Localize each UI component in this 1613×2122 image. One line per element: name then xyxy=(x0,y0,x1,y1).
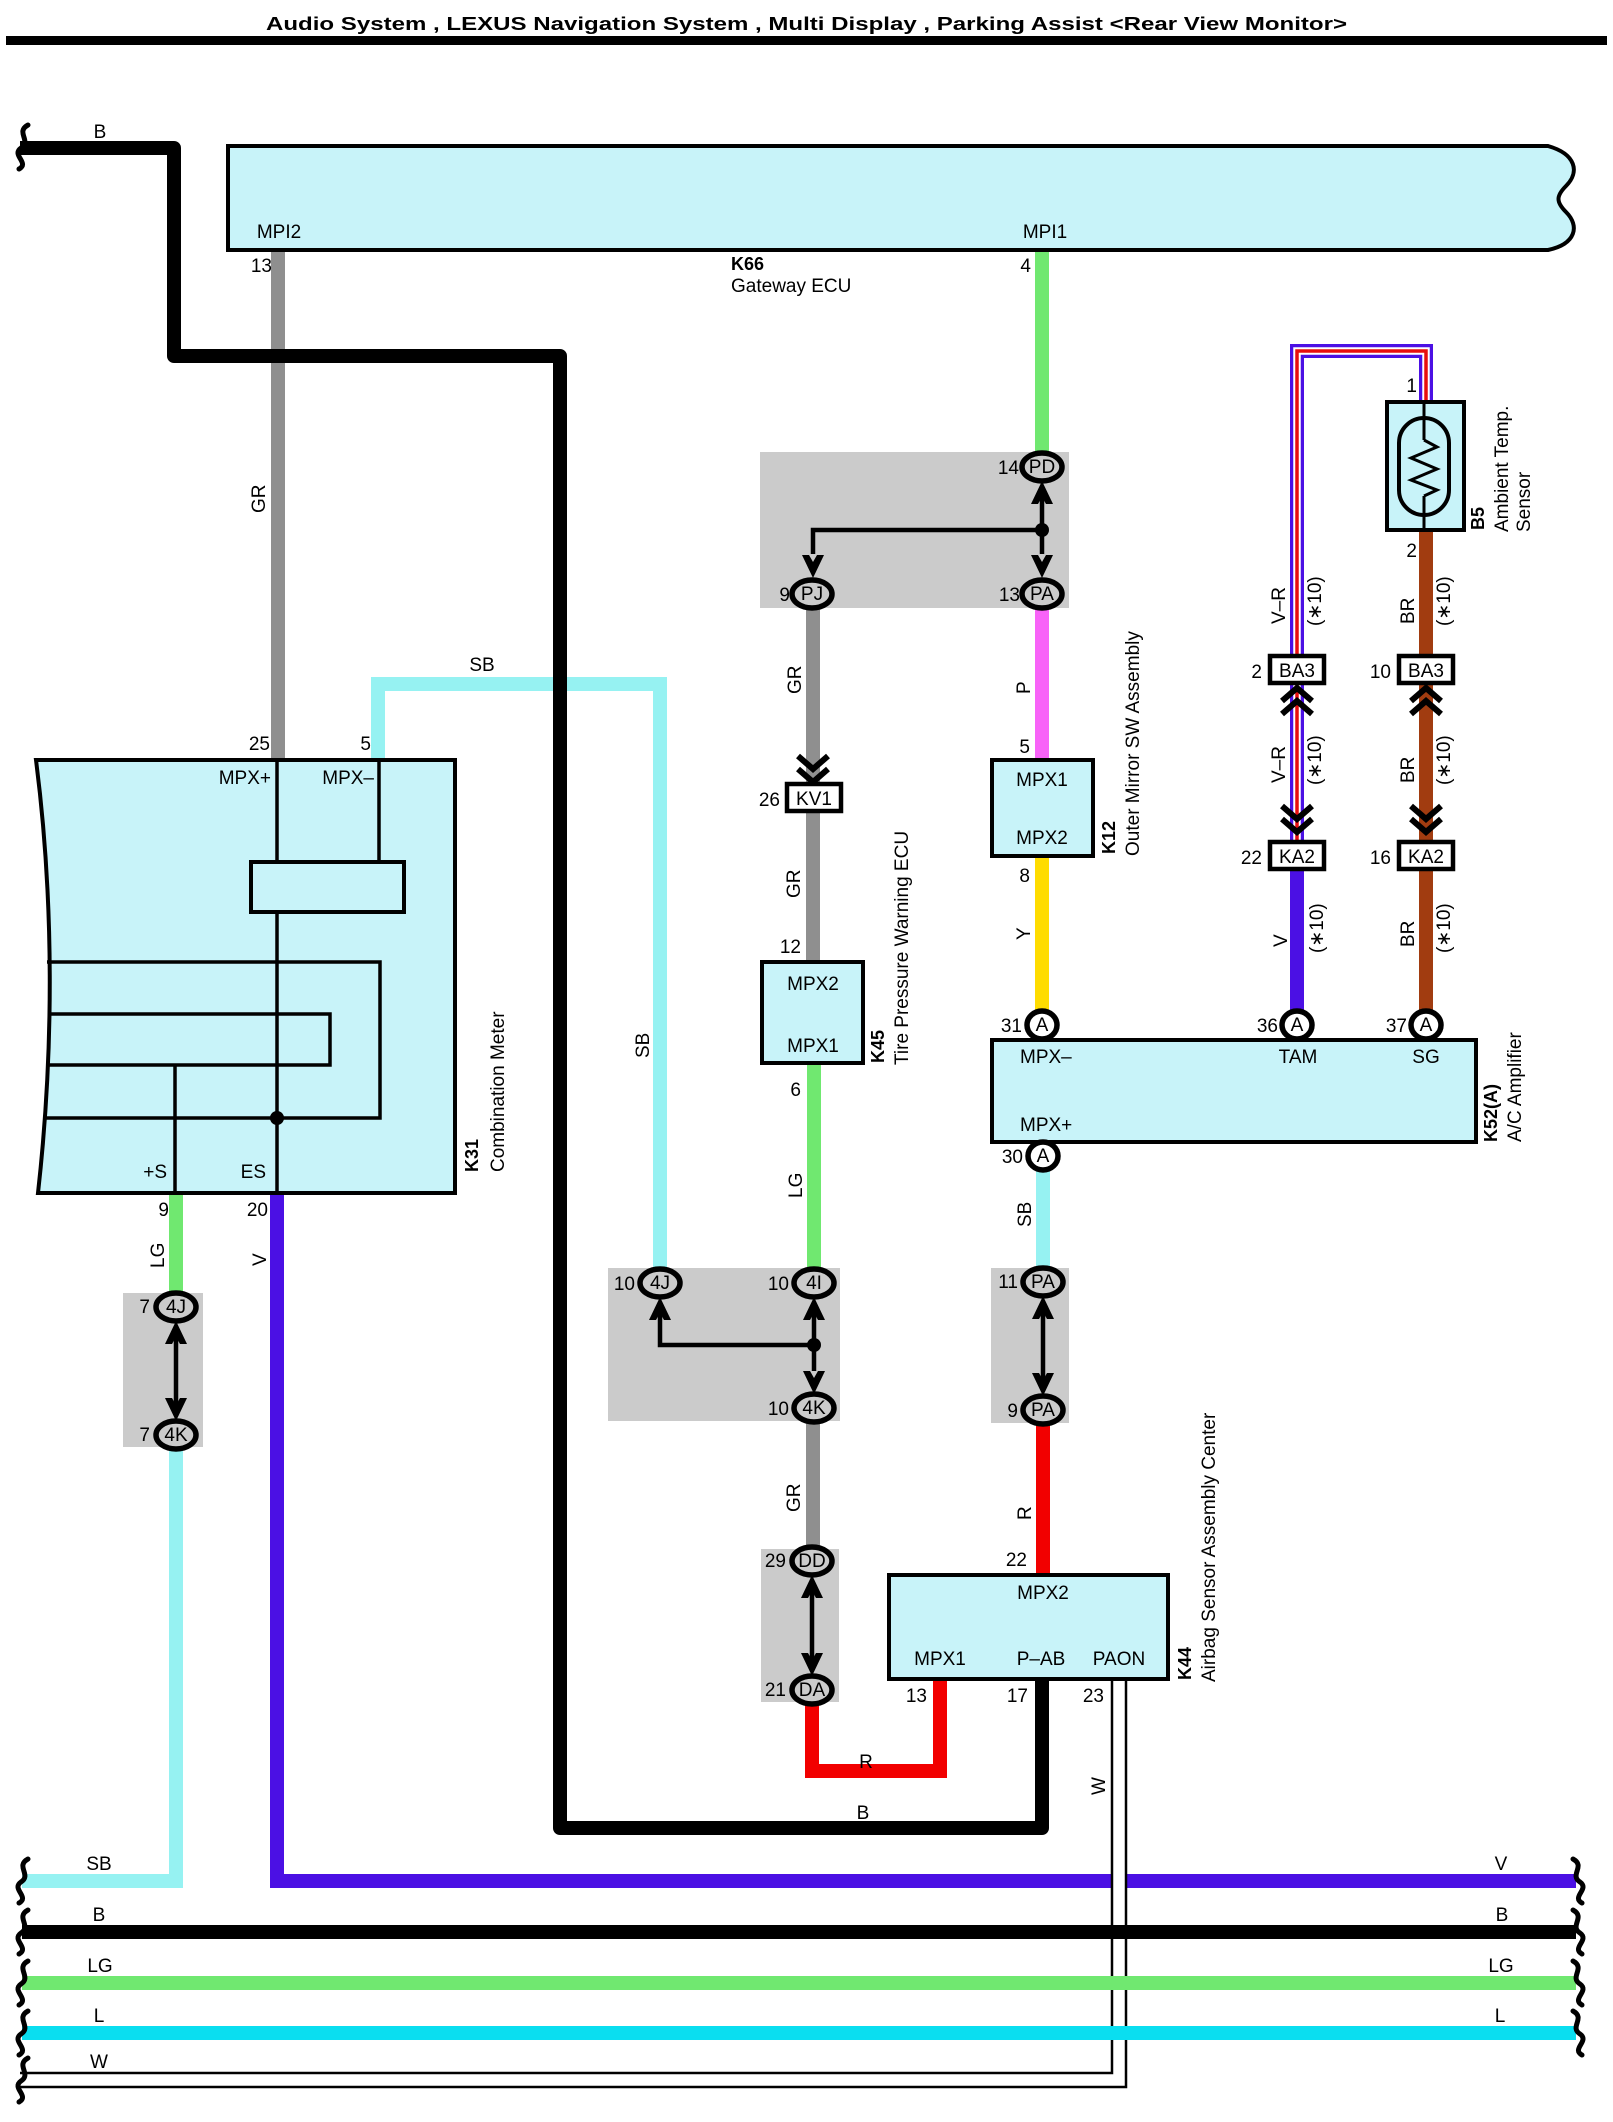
K31 internal component box xyxy=(251,862,404,912)
gateway ECU K66 box xyxy=(228,146,1574,250)
wire LG : K31 +S pin9 to connector 7-4J xyxy=(169,1193,183,1294)
connector BA3 right xyxy=(1399,656,1453,683)
svg-text:6: 6 xyxy=(790,1080,801,1101)
4J/4I/4K shield wiring xyxy=(649,1297,825,1394)
wire GR : connector PJ pin9 to KV1 xyxy=(806,607,820,783)
svg-text:5: 5 xyxy=(360,734,371,755)
svg-text:W: W xyxy=(1089,1777,1110,1795)
connector KV1 xyxy=(787,784,841,811)
svg-text:Sensor: Sensor xyxy=(1514,471,1535,532)
svg-text:SB: SB xyxy=(469,655,494,676)
svg-text:K44: K44 xyxy=(1175,1647,1195,1680)
combination meter K31 box xyxy=(36,760,455,1193)
svg-text:TAM: TAM xyxy=(1279,1047,1318,1068)
svg-text:V: V xyxy=(250,1253,271,1266)
svg-text:A: A xyxy=(1036,1015,1049,1036)
svg-text:SB: SB xyxy=(86,1854,111,1875)
svg-text:BR: BR xyxy=(1398,757,1419,783)
svg-text:1: 1 xyxy=(1406,376,1417,397)
wire GR : KV1 to K45 MPX2 pin12 xyxy=(806,812,820,962)
svg-text:BA3: BA3 xyxy=(1279,661,1315,682)
chevron arrow above KV1 xyxy=(798,756,828,782)
svg-text:B: B xyxy=(94,122,107,143)
svg-text:4: 4 xyxy=(1020,256,1031,277)
svg-text:26: 26 xyxy=(759,790,780,811)
K31 internal line MPX- xyxy=(377,760,381,862)
svg-text:9: 9 xyxy=(1007,1401,1018,1422)
svg-text:K66: K66 xyxy=(731,254,764,274)
svg-text:R: R xyxy=(1015,1506,1036,1520)
svg-text:KA2: KA2 xyxy=(1408,847,1444,868)
PD/PJ/PA shield wiring xyxy=(802,481,1053,578)
B5 thermistor zigzag xyxy=(1411,440,1437,496)
svg-text:12: 12 xyxy=(780,937,801,958)
svg-text:A: A xyxy=(1291,1015,1304,1036)
svg-text:(∗10): (∗10) xyxy=(1434,735,1455,785)
wire SB : connector 7-4K to left edge bus xyxy=(22,1448,176,1881)
connector oval DA xyxy=(792,1676,832,1704)
svg-text:BA3: BA3 xyxy=(1408,661,1444,682)
svg-text:7: 7 xyxy=(139,1297,150,1318)
connector BA3 left xyxy=(1270,656,1324,683)
svg-text:25: 25 xyxy=(249,734,270,755)
wire P : connector PA to K12 MPX1 pin5 xyxy=(1035,607,1049,760)
svg-text:SB: SB xyxy=(1015,1202,1036,1227)
svg-text:36: 36 xyxy=(1257,1016,1278,1037)
svg-text:KA2: KA2 xyxy=(1279,847,1315,868)
wire BR : B5 pin2 to connector BA3 xyxy=(1419,528,1433,658)
svg-text:16: 16 xyxy=(1370,848,1391,869)
connector oval PJ xyxy=(792,580,832,608)
chevron arrow above KA2 left xyxy=(1282,806,1312,832)
connector oval PA pin9 xyxy=(1023,1396,1063,1424)
wire GR : K66 MPI2 pin13 to K31 MPX+ pin25 xyxy=(271,250,285,760)
svg-text:GR: GR xyxy=(784,1484,805,1513)
svg-text:PAON: PAON xyxy=(1093,1649,1145,1670)
connector oval PA pin11 xyxy=(1023,1268,1063,1296)
svg-text:29: 29 xyxy=(765,1551,786,1572)
svg-text:GR: GR xyxy=(785,666,806,695)
svg-text:(∗10): (∗10) xyxy=(1307,903,1328,953)
svg-text:BR: BR xyxy=(1398,921,1419,947)
wire GR : connector 4K to connector DD xyxy=(806,1421,820,1548)
svg-text:PJ: PJ xyxy=(801,584,823,605)
svg-text:L: L xyxy=(94,2006,105,2027)
break symbol B wire left xyxy=(18,125,28,169)
wire W : K44 PAON pin23 to left edge bus xyxy=(20,1677,1119,2080)
wire LG : K66 MPI1 pin4 to connector PD xyxy=(1035,250,1049,455)
svg-text:Outer Mirror SW Assembly: Outer Mirror SW Assembly xyxy=(1123,631,1144,856)
K52 pin oval A30 xyxy=(1028,1142,1058,1170)
A/C amplifier K52 box xyxy=(992,1040,1476,1142)
wire BR : KA2 to K52 SG pin37 xyxy=(1419,867,1433,1012)
svg-text:(∗10): (∗10) xyxy=(1305,576,1326,626)
svg-text:Gateway ECU: Gateway ECU xyxy=(731,276,851,297)
svg-text:LG: LG xyxy=(148,1243,169,1268)
wire B : left edge to gateway area, down and across to K44 P-AB pin17 xyxy=(20,148,1042,1828)
svg-text:PD: PD xyxy=(1029,457,1055,478)
K31 internal line +S xyxy=(173,1065,177,1193)
connector oval 4J xyxy=(640,1269,680,1297)
svg-text:9: 9 xyxy=(779,585,790,606)
svg-text:GR: GR xyxy=(784,870,805,899)
connector oval 7-4K xyxy=(156,1421,196,1449)
K31 internal open rect lower xyxy=(48,1014,330,1065)
svg-text:(∗10): (∗10) xyxy=(1434,903,1455,953)
svg-text:13: 13 xyxy=(999,585,1020,606)
svg-text:LG: LG xyxy=(1488,1956,1513,1977)
connector oval 4K xyxy=(794,1394,834,1422)
airbag sensor K44 box xyxy=(889,1575,1168,1679)
wire V : K31 ES pin20 to right edge bus xyxy=(277,1193,1576,1881)
svg-text:13: 13 xyxy=(251,256,272,277)
svg-text:MPX1: MPX1 xyxy=(1016,770,1068,791)
svg-text:30: 30 xyxy=(1002,1147,1023,1168)
svg-text:P–AB: P–AB xyxy=(1017,1649,1066,1670)
bus B bottom xyxy=(22,1925,1576,1939)
wire BR : BA3 to KA2 xyxy=(1419,682,1433,844)
svg-text:Airbag Sensor Assembly Center: Airbag Sensor Assembly Center xyxy=(1199,1412,1220,1682)
wire LG : K45 MPX1 pin6 to connector 4I xyxy=(807,1065,821,1270)
PA/PA shield wiring xyxy=(1032,1296,1054,1396)
K31 internal junction dot xyxy=(270,1111,284,1125)
svg-text:MPX–: MPX– xyxy=(1020,1047,1072,1068)
svg-text:MPX1: MPX1 xyxy=(787,1036,839,1057)
svg-text:2: 2 xyxy=(1406,541,1417,562)
tire pressure warning ECU K45 box xyxy=(762,962,863,1063)
svg-text:DA: DA xyxy=(799,1680,826,1701)
svg-text:MPX2: MPX2 xyxy=(1017,1583,1069,1604)
break symbol SB bus left xyxy=(18,1859,28,1903)
connector KA2 right xyxy=(1399,842,1453,869)
wire R : connector DA pin21 to K44 MPX1 pin13 xyxy=(812,1679,940,1771)
svg-text:37: 37 xyxy=(1386,1016,1407,1037)
break symbol L bus right xyxy=(1573,2011,1583,2055)
svg-text:V: V xyxy=(1495,1854,1508,1875)
svg-text:17: 17 xyxy=(1007,1686,1028,1707)
break symbol W bus left xyxy=(18,2058,28,2102)
svg-text:(∗10): (∗10) xyxy=(1434,576,1455,626)
svg-text:DD: DD xyxy=(798,1551,825,1572)
svg-text:Audio System , LEXUS Navigatio: Audio System , LEXUS Navigation System ,… xyxy=(266,14,1347,34)
svg-text:5: 5 xyxy=(1019,737,1030,758)
svg-text:2: 2 xyxy=(1251,662,1262,683)
svg-text:10: 10 xyxy=(614,1274,635,1295)
connector oval PD xyxy=(1022,453,1062,481)
svg-text:(∗10): (∗10) xyxy=(1305,735,1326,785)
svg-text:SG: SG xyxy=(1412,1047,1439,1068)
svg-text:K31: K31 xyxy=(462,1139,482,1172)
K31 internal line MPX+ xyxy=(275,760,279,862)
svg-text:A: A xyxy=(1037,1146,1050,1167)
svg-text:PA: PA xyxy=(1030,584,1054,605)
connector shield box PA/PA xyxy=(991,1268,1069,1423)
chevron arrow below BA3 right xyxy=(1411,688,1441,714)
bus LG bottom xyxy=(22,1976,1576,1990)
wire V : KA2 to K52 TAM pin36 xyxy=(1290,867,1304,1012)
svg-text:4K: 4K xyxy=(802,1398,826,1419)
svg-text:8: 8 xyxy=(1019,866,1030,887)
outer mirror SW assembly K12 box xyxy=(992,760,1093,856)
svg-text:PA: PA xyxy=(1031,1400,1055,1421)
svg-text:13: 13 xyxy=(906,1686,927,1707)
break symbol B bus left xyxy=(18,1910,28,1954)
svg-text:W: W xyxy=(90,2052,108,2073)
svg-text:Y: Y xyxy=(1014,927,1035,940)
svg-text:20: 20 xyxy=(247,1200,268,1221)
wire SB : K52 pin30 to connector PA pin11 xyxy=(1036,1170,1050,1268)
wire Y : K12 MPX2 pin8 to K52 pin31 xyxy=(1035,856,1049,1012)
svg-text:10: 10 xyxy=(768,1274,789,1295)
K52 pin oval A31 xyxy=(1027,1011,1057,1039)
svg-text:K52(A): K52(A) xyxy=(1481,1084,1501,1142)
svg-text:14: 14 xyxy=(998,458,1020,479)
break symbol LG bus left xyxy=(18,1961,28,2005)
svg-text:LG: LG xyxy=(87,1956,112,1977)
svg-text:LG: LG xyxy=(786,1173,807,1198)
svg-text:MPI1: MPI1 xyxy=(1023,222,1067,243)
svg-text:23: 23 xyxy=(1083,1686,1104,1707)
wire R : connector PA pin9 to K44 MPX2 pin22 xyxy=(1036,1424,1050,1575)
connector shield box 4J/4I/4K xyxy=(608,1268,840,1421)
svg-text:PA: PA xyxy=(1031,1272,1055,1293)
break symbol LG bus right xyxy=(1573,1961,1583,2005)
svg-text:9: 9 xyxy=(158,1200,169,1221)
svg-text:GR: GR xyxy=(249,485,270,514)
connector oval PA pin13 xyxy=(1022,580,1062,608)
svg-text:R: R xyxy=(859,1752,873,1773)
DD/DA shield wiring xyxy=(801,1575,823,1676)
svg-text:B: B xyxy=(857,1803,870,1824)
K52 pin oval A36 xyxy=(1282,1011,1312,1039)
connector shield box DD/DA xyxy=(761,1549,839,1702)
chevron arrow above KA2 right xyxy=(1411,806,1441,832)
svg-text:MPX2: MPX2 xyxy=(1016,828,1068,849)
svg-text:MPX+: MPX+ xyxy=(1020,1115,1072,1136)
K52 pin oval A37 xyxy=(1411,1011,1441,1039)
wire V-R : B5 pin1 loop to connector BA3 pin2 xyxy=(1297,351,1426,660)
svg-text:KV1: KV1 xyxy=(796,789,832,810)
svg-text:MPX–: MPX– xyxy=(322,768,374,789)
svg-text:10: 10 xyxy=(1370,662,1391,683)
svg-text:21: 21 xyxy=(765,1680,786,1701)
break symbol B bus right xyxy=(1573,1910,1583,1954)
svg-text:Combination Meter: Combination Meter xyxy=(488,1011,509,1172)
svg-text:Tire Pressure Warning ECU: Tire Pressure Warning ECU xyxy=(892,831,913,1065)
connector oval 4I xyxy=(794,1269,834,1297)
7-4J/7-4K shield wiring xyxy=(165,1321,187,1421)
chevron arrow below BA3 left xyxy=(1282,688,1312,714)
B5 thermistor stadium xyxy=(1399,418,1449,515)
connector shield box 7-4J/7-4K xyxy=(123,1293,203,1447)
svg-text:A/C Amplifier: A/C Amplifier xyxy=(1505,1032,1526,1142)
svg-text:P: P xyxy=(1014,681,1035,694)
svg-text:MPX+: MPX+ xyxy=(219,768,271,789)
svg-text:V–R: V–R xyxy=(1269,587,1290,624)
svg-text:K45: K45 xyxy=(868,1030,888,1063)
svg-text:B5: B5 xyxy=(1468,507,1488,530)
svg-text:22: 22 xyxy=(1241,848,1262,869)
svg-text:Ambient Temp.: Ambient Temp. xyxy=(1492,406,1513,532)
wire V-R : BA3 to KA2 xyxy=(1290,682,1304,844)
svg-text:MPI2: MPI2 xyxy=(257,222,301,243)
svg-text:10: 10 xyxy=(768,1399,789,1420)
svg-text:MPX2: MPX2 xyxy=(787,974,839,995)
svg-text:BR: BR xyxy=(1398,598,1419,624)
svg-text:V–R: V–R xyxy=(1269,746,1290,783)
break symbol V bus right xyxy=(1573,1859,1583,1903)
K31 internal open rect upper xyxy=(45,962,380,1118)
svg-text:4J: 4J xyxy=(650,1273,670,1294)
connector oval DD xyxy=(792,1547,832,1575)
bus L bottom xyxy=(22,2026,1576,2040)
svg-text:ES: ES xyxy=(241,1162,266,1183)
title underline xyxy=(6,36,1607,45)
svg-text:7: 7 xyxy=(139,1425,150,1446)
svg-text:31: 31 xyxy=(1001,1016,1022,1037)
svg-text:11: 11 xyxy=(998,1272,1018,1293)
ambient temp sensor B5 box xyxy=(1387,402,1464,530)
break symbol L bus left xyxy=(18,2011,28,2055)
svg-text:V: V xyxy=(1271,934,1292,947)
connector oval 7-4J xyxy=(156,1293,196,1321)
connector shield box PD/PJ/PA xyxy=(760,452,1069,608)
K31 internal line to ES xyxy=(275,912,279,1193)
B5 thermistor lead line xyxy=(1423,402,1426,530)
wire SB : K31 MPX- pin5 to connector 4J xyxy=(378,684,660,1270)
svg-text:MPX1: MPX1 xyxy=(914,1649,966,1670)
svg-text:B: B xyxy=(93,1905,106,1926)
svg-text:4I: 4I xyxy=(806,1273,822,1294)
svg-text:SB: SB xyxy=(633,1033,654,1058)
svg-text:K12: K12 xyxy=(1099,821,1119,854)
svg-text:B: B xyxy=(1496,1905,1509,1926)
svg-text:A: A xyxy=(1420,1015,1433,1036)
svg-text:4K: 4K xyxy=(164,1425,188,1446)
svg-text:4J: 4J xyxy=(166,1297,186,1318)
svg-text:L: L xyxy=(1495,2006,1506,2027)
svg-text:+S: +S xyxy=(143,1162,167,1183)
connector KA2 left xyxy=(1270,842,1324,869)
svg-text:22: 22 xyxy=(1006,1550,1027,1571)
